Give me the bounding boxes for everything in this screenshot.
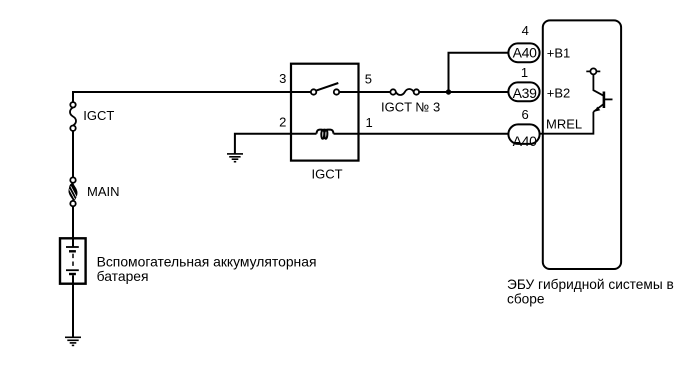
fuse IGCT (vertical, circle-S-circle) [70,102,76,131]
svg-text:4: 4 [522,23,529,38]
svg-text:+B2: +B2 [547,85,571,100]
ground (battery) [65,337,81,345]
wire: terminal to transistor collector [593,74,603,95]
relay switch contact [311,83,339,95]
transistor base lead [604,98,613,100]
terminal circle (power node inside ECU) [586,68,600,74]
junction node [446,89,451,94]
wire: emitter down to MREL line [540,112,593,134]
battery (auxiliary battery) box [60,238,86,283]
transistor Q (ECU output, base bar) [603,92,606,109]
svg-text:+B1: +B1 [547,45,571,60]
svg-text:2: 2 [279,115,286,130]
svg-text:6: 6 [521,107,528,122]
svg-text:сборе: сборе [507,292,545,307]
wire: relay pin 1 to connector A40 pin 6 [359,133,508,135]
svg-text:3: 3 [279,71,286,86]
wire: relay coil ground branch with corner [235,134,291,154]
svg-text:батарея: батарея [97,268,149,284]
connector A39 pin 1 [508,82,539,101]
wire: switch to relay pin 5 [340,91,359,93]
wire: relay pin 2 to coil [291,133,317,135]
wire: battery to ground [72,275,74,337]
wire: branch from junction up to connector A40 pin 4 [449,53,509,92]
fuse IGCT No.3 (horizontal, circle-S-circle) [390,89,419,95]
transistor emitter with arrow [593,104,604,112]
fusible link MAIN [69,177,77,206]
svg-text:1: 1 [521,65,528,80]
wire: fuse to junction to connector A39 [419,91,508,93]
wire: relay pin 5 to fuse IGCT No.3 [359,91,391,93]
relay coil [317,130,334,139]
svg-text:IGCT: IGCT [83,108,114,123]
wire: battery feed corner, vertical at x=73 up to y=92 then right to relay pin 3 [73,92,291,102]
wire: fusible link MAIN to battery [72,206,74,247]
svg-text:A39: A39 [513,85,538,101]
svg-text:MREL: MREL [546,116,582,131]
wire: coil to relay pin 1 [334,133,360,135]
ECU box (hybrid system ECU) [543,20,621,269]
svg-text:IGCT № 3: IGCT № 3 [381,100,440,115]
svg-text:5: 5 [365,71,372,86]
connector A40 pin 6 [508,124,539,143]
wire: relay pin 3 to switch contact [291,91,311,93]
svg-text:MAIN: MAIN [87,184,120,199]
svg-text:A40: A40 [513,133,538,149]
ground (relay coil) [227,154,243,162]
svg-text:A40: A40 [513,45,538,61]
svg-text:ЭБУ гибридной системы в: ЭБУ гибридной системы в [507,277,674,292]
svg-text:IGCT: IGCT [311,166,342,181]
wire: between fuse IGCT and fusible link MAIN [72,131,74,178]
connector A40 pin 4 [508,43,539,62]
battery cell plates [66,247,79,275]
relay box IGCT [291,64,359,161]
svg-text:1: 1 [366,115,373,130]
